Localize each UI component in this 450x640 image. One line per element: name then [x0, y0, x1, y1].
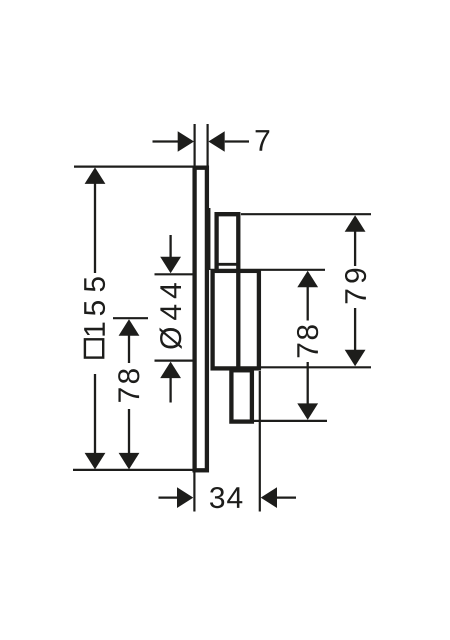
- dim 78 right arrow down: [297, 403, 318, 420]
- dim 79 extension bottom: [261, 366, 371, 368]
- dim 7 arrow right: [208, 131, 224, 152]
- dim 7 line left: [153, 140, 179, 142]
- body hidden edge line: [209, 208, 211, 270]
- valve body: [213, 271, 259, 369]
- dim 44 extension top: [155, 273, 193, 275]
- dim 7 extension line right: [207, 124, 209, 166]
- dim 155 square symbol: [85, 339, 103, 357]
- dim 79 extension top: [241, 213, 371, 215]
- cartridge upper box: [217, 214, 239, 368]
- dim 7 extension line left: [194, 124, 196, 166]
- dim 34 line right: [277, 496, 296, 498]
- dim 78 right arrow up: [297, 271, 318, 288]
- dim 34 line left: [159, 496, 179, 498]
- dim 79 arrow down: [345, 350, 366, 367]
- dim 78 right line upper: [307, 287, 309, 321]
- dim 155 extension bottom: [73, 469, 194, 471]
- dim 34 text: [210, 487, 224, 508]
- dim 155 line lower: [94, 374, 96, 453]
- dim 78 left extension: [113, 317, 148, 319]
- dim 78 right text: [297, 325, 318, 357]
- dim 79 text: [345, 269, 366, 304]
- dim 79 line upper: [354, 231, 356, 266]
- dim 79 arrow up: [345, 215, 366, 232]
- dim 44 extension bottom: [155, 360, 194, 362]
- dim 34 arrow right: [261, 487, 277, 508]
- dim 44 lower line: [169, 378, 171, 403]
- dim 44 arrow down: [160, 257, 181, 274]
- dim 155 line upper: [94, 184, 96, 274]
- dim 78 left line upper: [128, 335, 130, 363]
- dim 78 right line lower: [307, 362, 309, 404]
- dim 155 arrow down: [85, 453, 106, 470]
- dim 79 line lower: [354, 308, 356, 351]
- dim 7 line right: [225, 140, 249, 142]
- dim 78 left arrow down: [119, 453, 140, 470]
- dim 44 text: [160, 283, 182, 349]
- dim 34 extension left: [193, 472, 195, 512]
- dim 78 left arrow up: [119, 319, 140, 336]
- dim 155 extension top: [74, 166, 209, 168]
- dim 78 left line lower: [128, 409, 130, 453]
- dim 155 arrow up: [85, 167, 106, 184]
- dim 78 right extension bottom: [253, 420, 327, 422]
- dim 155 text: [84, 277, 105, 335]
- dim 34 arrow left: [177, 487, 193, 508]
- dim 7 text: [256, 130, 270, 151]
- dim 44 arrow up: [160, 362, 181, 379]
- dim 34 extension right: [259, 371, 261, 512]
- lower handle box: [231, 370, 252, 421]
- wall plate: [195, 168, 207, 471]
- dim 78 right extension top: [261, 269, 325, 271]
- dim 44 upper line: [169, 235, 171, 258]
- dim 78 left text: [118, 369, 139, 402]
- dim 7 arrow left: [178, 131, 194, 152]
- cartridge bottom inner line: [217, 263, 239, 266]
